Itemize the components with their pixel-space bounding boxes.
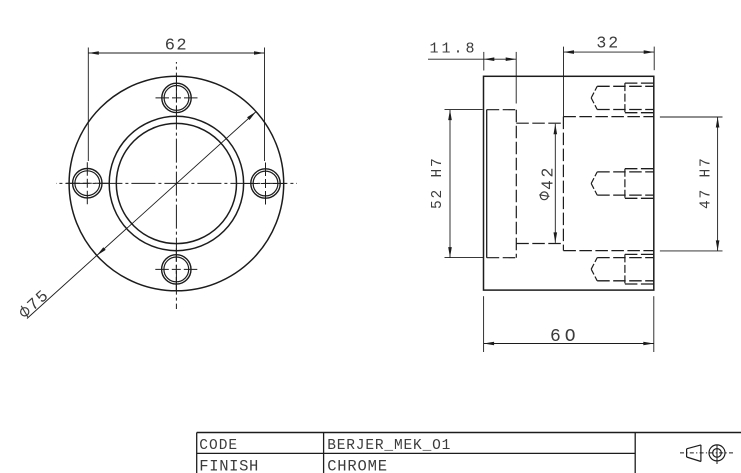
vertical centerline <box>175 62 177 309</box>
bore D47 end face hidden <box>562 117 564 251</box>
svg-text:BERJER_MEK_O1: BERJER_MEK_O1 <box>327 438 451 454</box>
bore circle D47 <box>109 116 243 250</box>
bolt hole left <box>66 162 108 204</box>
flange outer circle D75 <box>69 76 284 291</box>
bore D52 hidden bottom <box>487 257 517 259</box>
bore D52 hidden top <box>487 109 517 111</box>
bolt hole bottom <box>155 248 197 290</box>
screw hole 1 hidden <box>591 83 654 113</box>
label D75 <box>16 286 54 322</box>
svg-text:62: 62 <box>165 37 188 56</box>
svg-text:FINISH: FINISH <box>199 458 259 473</box>
body outline <box>484 76 654 290</box>
dimension D42 <box>539 124 558 243</box>
bore D42 hidden top <box>516 122 563 124</box>
dimension 52 H7 <box>430 110 483 258</box>
bolt hole right <box>245 163 287 205</box>
svg-text:52 H7: 52 H7 <box>430 157 446 210</box>
dimension 60 <box>484 296 654 352</box>
svg-text:42: 42 <box>539 165 558 190</box>
svg-text:6O: 6O <box>550 327 580 347</box>
dimension 62 <box>88 37 264 162</box>
svg-text:CODE: CODE <box>199 438 238 454</box>
svg-text:11.8: 11.8 <box>430 41 478 58</box>
dimension 47 H7 <box>660 117 723 251</box>
bolt hole top <box>156 77 198 119</box>
dimension 32 <box>564 34 655 117</box>
horizontal centerline <box>56 182 297 184</box>
flange recess face line <box>486 110 488 258</box>
svg-text:CHROME: CHROME <box>327 458 388 473</box>
bore D47 hidden bottom <box>563 250 653 252</box>
screw hole 2 hidden <box>591 169 654 199</box>
bore D47 hidden top <box>563 116 653 118</box>
svg-text:32: 32 <box>596 34 620 53</box>
dimension 11.8 <box>428 41 516 104</box>
flange back face hidden <box>515 110 517 258</box>
title block frame <box>197 433 741 473</box>
bore circle D42 <box>116 123 236 243</box>
dimension D75 diagonal <box>27 112 256 319</box>
bore D42 hidden bottom <box>516 243 563 245</box>
first angle projection symbol <box>680 445 733 465</box>
svg-text:47 H7: 47 H7 <box>699 157 715 210</box>
screw hole 3 hidden <box>591 254 654 284</box>
